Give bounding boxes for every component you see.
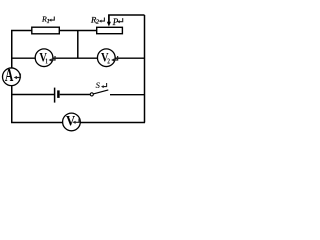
wire: wiper wire to right rail bbox=[109, 15, 145, 22]
voltmeter V (battery voltmeter) bbox=[63, 113, 81, 131]
svg-text:V: V bbox=[66, 113, 75, 129]
voltmeter V2 bbox=[97, 49, 117, 67]
wire: battery to switch bbox=[60, 94, 91, 96]
wire: battery row left bbox=[11, 94, 54, 96]
resistor R2 (rheostat) bbox=[90, 15, 123, 34]
switch S bbox=[90, 80, 108, 96]
svg-text:S: S bbox=[96, 80, 101, 90]
voltmeter V1 bbox=[35, 49, 55, 67]
svg-text:A: A bbox=[5, 67, 14, 86]
wire: voltmeter row right bbox=[115, 57, 145, 59]
wire: left rail bbox=[11, 31, 13, 123]
wire: bottom wire right bbox=[80, 122, 145, 124]
wire: junction link to voltmeter row bbox=[77, 31, 79, 59]
wire: voltmeter row middle bbox=[52, 57, 98, 59]
svg-text:1: 1 bbox=[45, 58, 48, 66]
resistor R1 bbox=[32, 14, 60, 33]
wire: top wire middle segment (R1 to R2) bbox=[60, 30, 98, 32]
svg-text:2: 2 bbox=[107, 58, 110, 66]
wire: top wire left segment bbox=[11, 30, 32, 32]
svg-text:2: 2 bbox=[96, 18, 99, 25]
wire: bottom wire left bbox=[11, 122, 63, 124]
battery cell bbox=[55, 88, 59, 103]
wire: right rail bbox=[144, 15, 146, 123]
wiper arrow P bbox=[108, 15, 110, 23]
svg-text:P: P bbox=[112, 17, 119, 27]
wire: switch to right rail bbox=[110, 94, 145, 96]
svg-text:1: 1 bbox=[47, 18, 50, 25]
ammeter A bbox=[3, 67, 21, 86]
wire: voltmeter row left bbox=[11, 57, 36, 59]
